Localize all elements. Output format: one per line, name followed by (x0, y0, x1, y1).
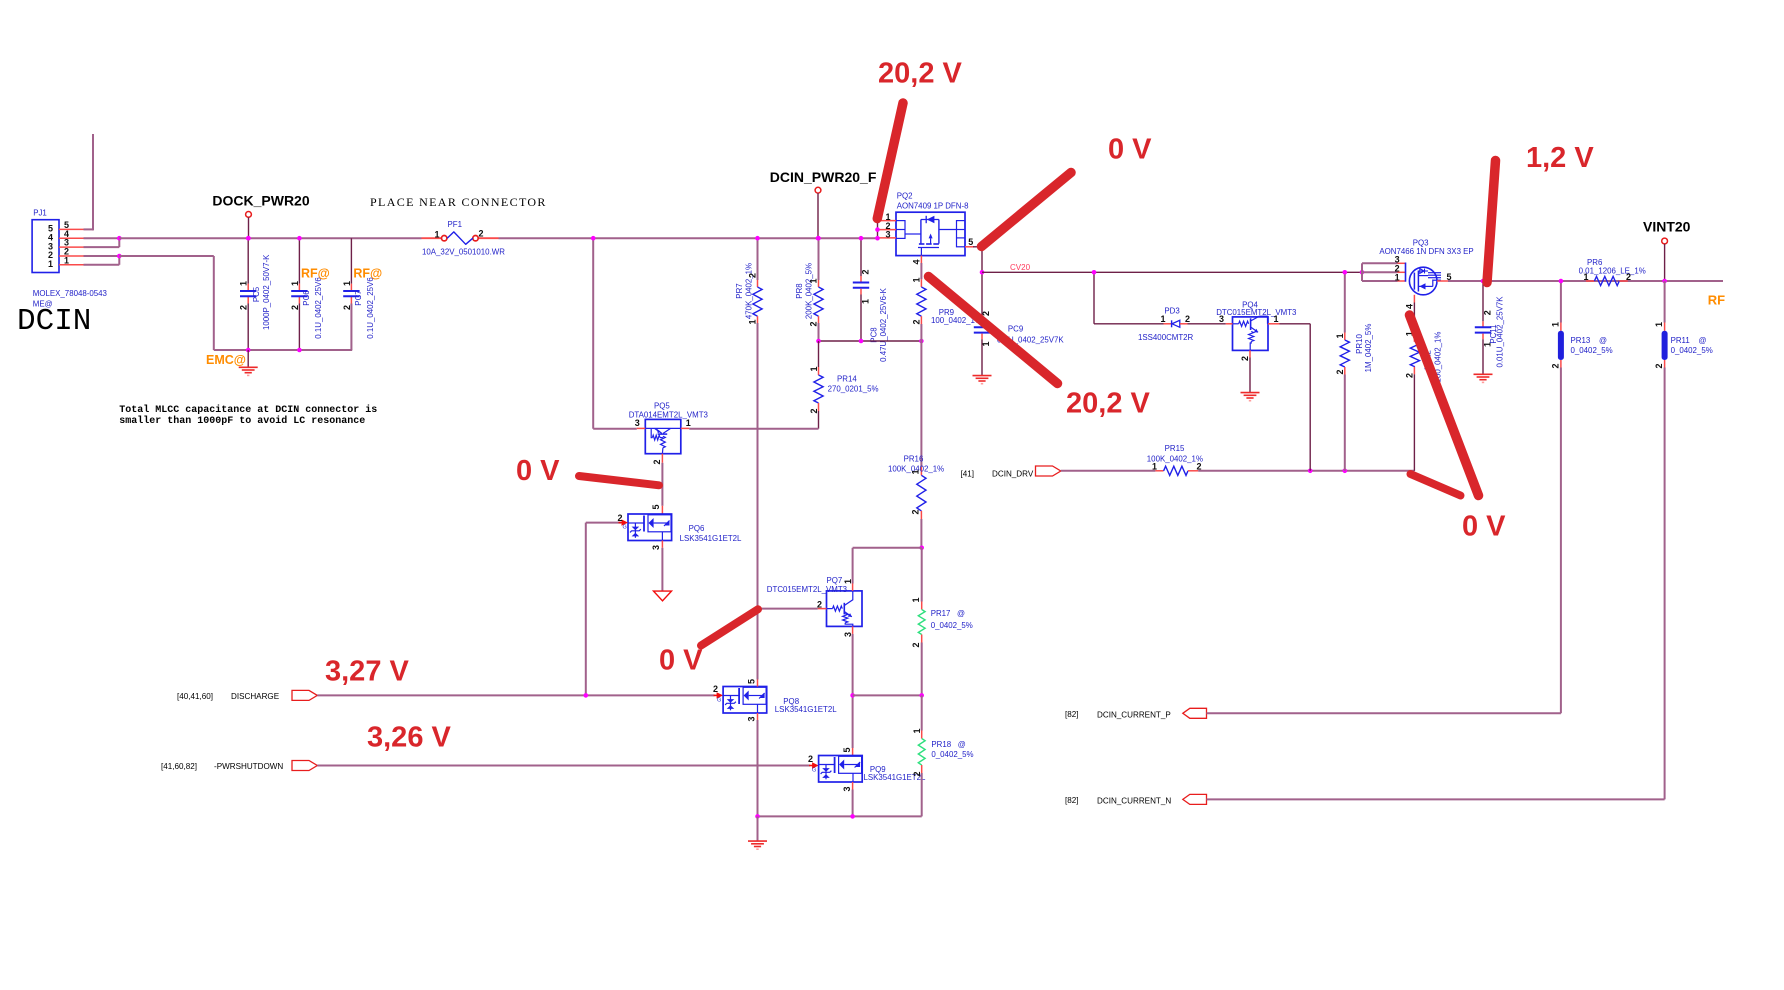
svg-text:1: 1 (1160, 314, 1165, 324)
power port circle DOCK_PWR20 (246, 212, 252, 218)
power port circle DCIN_PWR20_F (815, 187, 821, 193)
junction pins 4/3 (117, 236, 122, 241)
svg-text:1: 1 (911, 277, 921, 282)
svg-text:[40,41,60]: [40,41,60] (177, 692, 213, 701)
svg-text:1: 1 (809, 278, 819, 283)
junction CV20 x1094 (1092, 270, 1097, 275)
PQ6 pin 3 to ground (651, 541, 672, 601)
PQ6 gate wire (586, 513, 628, 531)
svg-text:2: 2 (1626, 272, 1631, 282)
svg-text:G: G (623, 525, 627, 531)
wire EMC rail (214, 349, 352, 351)
flag -PWRSHUTDOWN (292, 761, 317, 771)
svg-text:1: 1 (981, 341, 991, 346)
svg-text:DTC015EMT2L_VMT3: DTC015EMT2L_VMT3 (1216, 308, 1297, 317)
svg-text:DCIN_CURRENT_P: DCIN_CURRENT_P (1097, 711, 1171, 720)
wire DCIN_CURRENT_P (1207, 712, 1561, 714)
junction DCIN_PWR20_F (816, 236, 821, 241)
wire vertical x214 to EMC rail (213, 256, 215, 350)
svg-text:0.01U_0402_25V7K: 0.01U_0402_25V7K (1495, 296, 1504, 368)
ground PQ4 earth symbol (1241, 393, 1260, 401)
svg-text:2: 2 (479, 229, 484, 239)
svg-text:DCIN_PWR20_F: DCIN_PWR20_F (770, 169, 877, 185)
junction PR8 top (816, 236, 821, 241)
junction PR7 top (755, 236, 760, 241)
connector PJ1 (32, 220, 59, 273)
wire y695 segment to PR17/PR18 (853, 694, 922, 696)
resistor PR11 (0 ohm bar) (1654, 281, 1713, 799)
junction PC8 top (859, 236, 864, 241)
wire CV20 to PD3 (1094, 272, 1164, 324)
wire PQ4 pin1 to DCIN_DRV (1280, 324, 1311, 471)
svg-text:CV20: CV20 (1010, 263, 1031, 272)
svg-text:G: G (717, 698, 721, 704)
flag DCIN_CURRENT_N (1183, 794, 1207, 804)
svg-text:2: 2 (808, 754, 813, 764)
transistor PQ3 AON7466 (1406, 263, 1442, 295)
svg-text:2: 2 (652, 459, 662, 464)
junction PC5 top (246, 236, 251, 241)
svg-text:2: 2 (911, 509, 921, 514)
svg-text:smaller than 1000pF to avoid L: smaller than 1000pF to avoid LC resonanc… (119, 415, 365, 427)
ground EMC earth symbol (239, 367, 258, 375)
junction PC6 bottom (297, 348, 302, 353)
junction PC8 bottom (859, 339, 864, 344)
transistor PQ8 LSK3541G1ET2L (723, 687, 767, 714)
svg-text:EMC@: EMC@ (206, 353, 246, 367)
svg-text:1: 1 (748, 319, 758, 324)
wire pin3 (84, 246, 120, 248)
PQ4 pin2 to ground (1240, 350, 1250, 392)
wire bottom rail y816 (758, 815, 922, 817)
svg-text:1: 1 (64, 255, 69, 265)
svg-text:PC7: PC7 (354, 290, 363, 305)
wire PQ7 pin3 to PQ9 pin5 (852, 695, 854, 748)
svg-text:1,2 V: 1,2 V (1526, 142, 1594, 174)
svg-text:2: 2 (290, 305, 300, 310)
svg-text:1: 1 (48, 259, 53, 269)
resistor PR14 (809, 341, 879, 429)
ground earth symbol bottom (748, 841, 767, 849)
PQ8 pin5 stub (747, 679, 758, 687)
svg-text:1: 1 (1395, 272, 1400, 282)
svg-text:0 V: 0 V (516, 455, 560, 487)
svg-text:1: 1 (686, 418, 691, 428)
svg-text:PC8: PC8 (870, 327, 879, 343)
svg-text:PJ1: PJ1 (33, 209, 47, 218)
PQ3 pin loop wires (1362, 263, 1406, 281)
svg-text:0.47U_0402_25V6-K: 0.47U_0402_25V6-K (879, 287, 888, 361)
capacitor PC11 (1475, 281, 1505, 374)
svg-text:0 V: 0 V (659, 645, 703, 677)
svg-text:2: 2 (912, 771, 922, 776)
svg-text:0.1U_0402_25V6: 0.1U_0402_25V6 (314, 277, 323, 339)
svg-text:4: 4 (911, 259, 921, 264)
svg-text:2: 2 (713, 684, 718, 694)
svg-text:1SS400CMT2R: 1SS400CMT2R (1138, 333, 1194, 342)
wire pin2 (84, 255, 120, 257)
wire pin4 to bus (84, 237, 120, 239)
svg-text:PLACE NEAR CONNECTOR: PLACE NEAR CONNECTOR (370, 195, 547, 209)
svg-text:0 V: 0 V (1108, 133, 1152, 165)
svg-text:VINT20: VINT20 (1643, 219, 1691, 235)
svg-text:1: 1 (1583, 272, 1588, 282)
PQ9 gate pin arrow (812, 762, 819, 768)
svg-text:1: 1 (290, 281, 300, 286)
ground PC9 earth symbol (973, 376, 992, 384)
wire VINT20 output net (1448, 280, 1723, 282)
wire pin5 to vertical (84, 228, 94, 230)
svg-text:5: 5 (747, 679, 757, 684)
PQ3 pin 4 + PR12 (1404, 295, 1442, 471)
svg-text:[41]: [41] (961, 470, 975, 479)
svg-text:20,2 V: 20,2 V (878, 57, 962, 89)
svg-text:[82]: [82] (1065, 796, 1079, 805)
junction PC6 top (297, 236, 302, 241)
svg-text:[82]: [82] (1065, 710, 1079, 719)
PQ7 gate wire from 0V node (758, 608, 818, 610)
svg-text:Total MLCC capacitance at DCIN: Total MLCC capacitance at DCIN connector… (119, 404, 377, 416)
junction VINT20 (1662, 279, 1667, 284)
wire CV20 net (982, 271, 1362, 273)
junction CV20/PQ3 pins (1360, 270, 1365, 275)
capacitor PC9 (974, 247, 1065, 375)
svg-text:1: 1 (434, 230, 439, 240)
transistor PQ2 AON7409 (896, 212, 965, 255)
svg-text:1: 1 (1335, 333, 1345, 338)
junction PC5 bottom (246, 348, 251, 353)
annotation line to PQ2 pin5 (982, 173, 1072, 247)
junction rail/PQ8 pin3 (755, 814, 760, 819)
wire vertical off-page x93 (92, 134, 94, 230)
transistor PQ7 DTC015EMT2L (818, 591, 862, 627)
svg-text:PQ5: PQ5 (654, 401, 670, 410)
svg-text:PC9: PC9 (1008, 325, 1024, 334)
svg-text:270_0201_5%: 270_0201_5% (828, 385, 879, 394)
junction x758 0V node (755, 606, 760, 611)
resistor PR9 (911, 263, 982, 341)
svg-text:5: 5 (842, 747, 852, 752)
svg-text:3: 3 (635, 418, 640, 428)
capacitor PC6 (290, 238, 323, 350)
junction PQ2 pin3 (875, 236, 880, 241)
svg-text:2: 2 (1404, 373, 1414, 378)
flag DCIN_DRV (1036, 466, 1061, 476)
svg-text:3: 3 (747, 716, 757, 721)
svg-text:PQ7: PQ7 (827, 576, 843, 585)
svg-text:DCIN_DRV: DCIN_DRV (992, 470, 1034, 479)
svg-text:2: 2 (1654, 363, 1664, 368)
wire ground stub PQ8 rail (757, 816, 759, 840)
junction PC11 top (1481, 279, 1486, 284)
capacitor PC7 (342, 238, 375, 350)
wire pin2 net to EMC rail (119, 255, 214, 257)
junction CV20 at PC9 (980, 270, 985, 275)
svg-text:2: 2 (809, 321, 819, 326)
junction pins 2/1 (117, 254, 122, 259)
svg-text:10A_32V_0501010.WR: 10A_32V_0501010.WR (422, 247, 505, 256)
PQ2 pin 5 (965, 237, 982, 247)
svg-text:0.01_1206_LE_1%: 0.01_1206_LE_1% (1579, 267, 1646, 276)
resistor PR16 (888, 455, 944, 548)
annotation line to PQ2 pin4 (929, 277, 1058, 384)
svg-text:3: 3 (842, 786, 852, 791)
ground PC11 earth symbol (1474, 374, 1493, 382)
svg-text:2: 2 (1335, 369, 1345, 374)
wire DCIN_PWR20_F bus (499, 237, 878, 239)
svg-text:1: 1 (911, 597, 921, 602)
wire DISCHARGE net (317, 694, 714, 696)
PQ9 pin5 stub (852, 748, 854, 756)
wire rail y341 (819, 340, 922, 342)
svg-text:AON7466 1N DFN 3X3 EP: AON7466 1N DFN 3X3 EP (1379, 247, 1473, 256)
svg-text:0_0402_5%: 0_0402_5% (931, 750, 973, 759)
svg-text:1: 1 (342, 281, 352, 286)
transistor PQ9 LSK3541G1ET2L (819, 756, 863, 783)
svg-text:0_0402_5%: 0_0402_5% (1571, 346, 1613, 355)
flag DISCHARGE (292, 690, 317, 700)
wire x758 column PR7 to PQ8 (757, 323, 759, 680)
svg-text:PR15: PR15 (1165, 444, 1185, 453)
svg-text:AON7409 1P DFN-8: AON7409 1P DFN-8 (897, 202, 969, 211)
svg-text:200K_0402_5%: 200K_0402_5% (805, 263, 814, 319)
svg-text:1: 1 (843, 579, 853, 584)
svg-text:1: 1 (239, 281, 249, 286)
svg-text:PR8: PR8 (795, 283, 804, 299)
wire pin1 riser (118, 256, 120, 265)
svg-text:1: 1 (1654, 322, 1664, 327)
svg-text:DCIN: DCIN (17, 304, 91, 339)
svg-text:2: 2 (617, 513, 622, 523)
wire x922 rail to PR16 (920, 341, 922, 467)
fuse PF1 (422, 232, 499, 244)
wire PC7 bottom riser (350, 304, 352, 351)
svg-text:1: 1 (1274, 314, 1279, 324)
svg-text:1: 1 (911, 469, 921, 474)
annotation line to VINT20 wire (1487, 161, 1496, 283)
svg-text:MOLEX_78048-0543: MOLEX_78048-0543 (33, 289, 108, 298)
svg-text:0_0402_5%: 0_0402_5% (931, 621, 973, 630)
svg-text:RF@: RF@ (353, 267, 382, 281)
svg-text:3,27 V: 3,27 V (325, 656, 409, 688)
PQ5 pin 2 (652, 454, 662, 506)
svg-text:1M_0402_5%: 1M_0402_5% (1364, 324, 1373, 373)
svg-text:4: 4 (1404, 304, 1414, 309)
svg-text:3,26 V: 3,26 V (367, 722, 451, 754)
svg-text:PC5: PC5 (252, 286, 261, 302)
wire DCIN_CURRENT_N (1207, 798, 1665, 800)
svg-text:PR7: PR7 (735, 283, 744, 298)
wire PQ5 pin1 to PR14 (689, 428, 818, 430)
svg-text:5: 5 (651, 504, 661, 509)
annotation line from PQ3 pin4 (1410, 315, 1479, 496)
svg-text:2: 2 (1240, 356, 1250, 361)
svg-text:3: 3 (1219, 314, 1224, 324)
junction CV20/PR10 (1343, 270, 1348, 275)
svg-text:0.1U_0402_25V6: 0.1U_0402_25V6 (366, 277, 375, 339)
svg-text:2: 2 (1197, 461, 1202, 471)
svg-text:20,2 V: 20,2 V (1066, 388, 1150, 420)
junction PR13 top (1559, 279, 1564, 284)
svg-text:3: 3 (843, 632, 853, 637)
PJ1 outer pin numbers 5 4 3 2 1 (64, 220, 69, 265)
svg-text:PR14: PR14 (837, 375, 857, 384)
junction PR10 bottom on DCIN_DRV (1343, 469, 1348, 474)
transistor PQ6 LSK3541G1ET2L (628, 514, 672, 541)
wire pin3 riser (118, 238, 120, 247)
svg-text:PR13 @: PR13 @ (1571, 336, 1608, 345)
svg-text:2: 2 (748, 273, 758, 278)
PQ3 pin 5 (1437, 272, 1452, 282)
junction PR9 bottom rail (919, 339, 924, 344)
flag DCIN_CURRENT_P (1183, 708, 1207, 718)
svg-text:RF: RF (1708, 293, 1725, 308)
wire DCIN_PWR20_F stub (817, 193, 819, 238)
junction PR8/PR14 (816, 339, 821, 344)
svg-text:1: 1 (809, 366, 819, 371)
annotation line from DCIN_DRV corner (1411, 474, 1461, 496)
svg-text:RF@: RF@ (301, 267, 330, 281)
resistor PR15 (1061, 444, 1415, 475)
resistor PR7 (735, 238, 762, 324)
svg-text:PR18 @: PR18 @ (931, 740, 965, 749)
svg-text:DTA014EMT2L_VMT3: DTA014EMT2L_VMT3 (629, 410, 709, 419)
svg-text:PQ2: PQ2 (897, 192, 913, 201)
svg-text:-PWRSHUTDOWN: -PWRSHUTDOWN (214, 762, 283, 771)
annotation line to PQ2 pin1 (877, 103, 903, 219)
annotation line 0V to PQ5 pin2 wire (579, 476, 659, 485)
svg-text:PR10: PR10 (1355, 334, 1364, 354)
junction y695 at x853 (850, 693, 855, 698)
resistor PR6 (1579, 258, 1646, 286)
wire PQ5 row y428.7 left (592, 238, 594, 429)
svg-text:G: G (812, 768, 816, 774)
svg-text:DCIN_CURRENT_N: DCIN_CURRENT_N (1097, 797, 1171, 806)
wire VINT20 stub (1664, 244, 1666, 281)
svg-text:1: 1 (861, 299, 871, 304)
svg-text:2: 2 (817, 600, 822, 610)
svg-text:470K_0402_1%: 470K_0402_1% (745, 263, 754, 319)
PQ7 pin1 wire up (852, 548, 854, 591)
PQ9 pin3 wire down (842, 782, 853, 816)
svg-text:PQ6: PQ6 (689, 524, 705, 533)
svg-text:1: 1 (1152, 461, 1157, 471)
wire x586 gate to DISCHARGE (585, 523, 587, 696)
svg-text:2: 2 (911, 319, 921, 324)
wire to PQ5 pin3 (593, 428, 637, 430)
annotation line 0V to x758 node (701, 609, 758, 645)
svg-text:1000P_0402_50V7-K: 1000P_0402_50V7-K (262, 254, 271, 330)
svg-text:3: 3 (651, 545, 661, 550)
resistor PR17 (green) (911, 548, 973, 696)
transistor PQ4 DTC015EMT2L (1226, 316, 1280, 350)
junction PR16/PR17/PQ7 (919, 546, 924, 551)
svg-text:DOCK_PWR20: DOCK_PWR20 (212, 193, 309, 209)
svg-text:LSK3541G1ET2L: LSK3541G1ET2L (775, 705, 837, 714)
svg-text:2: 2 (809, 408, 819, 413)
svg-text:[41,60,82]: [41,60,82] (161, 762, 197, 771)
svg-text:PF1: PF1 (448, 220, 462, 229)
PQ7 pin3 wire down (852, 626, 854, 695)
diode PD3 1SS400CMT2R (1138, 307, 1226, 342)
junction PQ2 pin2 (875, 227, 880, 232)
svg-text:2: 2 (1550, 363, 1560, 368)
transistor PQ5 DTA014EMT2L (637, 419, 689, 453)
svg-text:2: 2 (911, 642, 921, 647)
svg-text:0_0402_5%: 0_0402_5% (1671, 346, 1713, 355)
svg-text:DTC015EMT2L_VMT3: DTC015EMT2L_VMT3 (767, 585, 848, 594)
wire DOCK_PWR20 port stub (248, 217, 250, 238)
resistor PR18 (green) (912, 695, 974, 816)
svg-text:2: 2 (239, 305, 249, 310)
PJ1 pin leads (59, 229, 84, 264)
svg-text:2: 2 (342, 305, 352, 310)
wire -PWRSHUTDOWN net (317, 765, 810, 767)
svg-text:3: 3 (885, 230, 890, 240)
PQ8 pin3 wire down (747, 713, 758, 816)
capacitor PC8 (853, 238, 888, 362)
PQ8 gate pin arrow (717, 692, 724, 698)
PQ6 pin5 stub (661, 506, 663, 514)
svg-text:1: 1 (1550, 322, 1560, 327)
svg-text:0 V: 0 V (1462, 511, 1506, 543)
svg-text:DISCHARGE: DISCHARGE (231, 692, 280, 701)
wire pin1 (84, 264, 120, 266)
svg-text:5: 5 (968, 237, 973, 247)
svg-text:PR16: PR16 (904, 455, 924, 464)
junction PR17/PR18/DISCHARGE-side (919, 693, 924, 698)
svg-text:2: 2 (1483, 310, 1493, 315)
PQ2 pin stubs 1 2 3 (878, 212, 897, 240)
PJ1 inner pin names 5 4 3 2 1 (48, 224, 53, 269)
junction x593 bus (591, 236, 596, 241)
svg-text:PD3: PD3 (1164, 307, 1180, 316)
power port circle VINT20 (1662, 238, 1668, 244)
svg-text:2: 2 (981, 311, 991, 316)
junction rail/PQ9 pin3 (850, 814, 855, 819)
PQ2 pin 4 (911, 256, 921, 265)
svg-text:LSK3541G1ET2L: LSK3541G1ET2L (680, 534, 742, 543)
svg-text:PR11 @: PR11 @ (1671, 336, 1707, 345)
wire DOCK_PWR20 bus left of fuse (119, 237, 421, 239)
wire y548 PQ7 pin1 branch (853, 547, 922, 549)
resistor PR13 (0 ohm bar) (1550, 281, 1612, 713)
svg-text:1: 1 (912, 728, 922, 733)
wire ground stub EMC (247, 350, 249, 367)
resistor PR10 (1335, 272, 1373, 471)
svg-text:PR17 @: PR17 @ (931, 609, 965, 618)
svg-text:2: 2 (1185, 314, 1190, 324)
junction PQ4 output on DCIN_DRV (1308, 469, 1313, 474)
svg-text:PC6: PC6 (302, 290, 311, 306)
junction DOCK_PWR20 stub (246, 236, 251, 241)
capacitor PC5 (239, 238, 271, 350)
resistor PR8 (795, 238, 823, 341)
junction DISCHARGE/PQ6 gate (584, 693, 589, 698)
svg-text:2: 2 (861, 269, 871, 274)
